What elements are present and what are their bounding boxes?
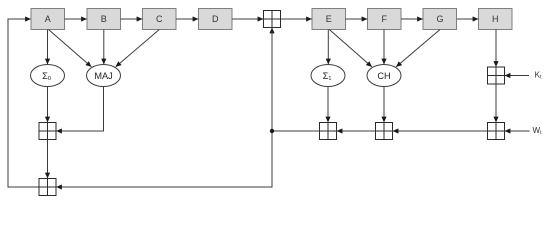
register G	[423, 9, 457, 30]
wire node T1 up to adder AD1	[271, 28, 273, 131]
wire Sigma0 to adder AD3	[47, 87, 49, 123]
wire A to B	[65, 18, 87, 20]
svg-text:MAJ: MAJ	[94, 71, 112, 81]
wire Sigma1 to adder AD4	[327, 87, 329, 123]
wire E to Sigma1	[327, 30, 329, 65]
svg-text:B: B	[101, 14, 107, 24]
adder AD7 (T1 + T2 = new A)	[39, 179, 56, 196]
svg-text:CH: CH	[377, 71, 390, 81]
wire E to CH (diagonal)	[329, 30, 372, 67]
adder AD1 (d + T1, feeds E)	[264, 11, 281, 28]
wire C to MAJ (diagonal)	[116, 30, 160, 67]
adder AD5 (CH + rest)	[376, 123, 393, 140]
wire node T1 down to adder AD7	[56, 131, 272, 187]
function Sigma0	[31, 65, 65, 87]
svg-text:D: D	[212, 14, 219, 24]
svg-text:F: F	[382, 14, 388, 24]
wire C to D	[176, 18, 198, 20]
wire G to H	[457, 18, 478, 20]
register C	[143, 9, 177, 30]
function Sigma1	[311, 65, 345, 87]
wire MAJ to adder AD3 (down then left)	[56, 87, 103, 132]
svg-text:E: E	[326, 14, 332, 24]
wire D to adder AD1	[232, 18, 263, 20]
svg-text:G: G	[436, 14, 443, 24]
wire Wt into adder AD6	[505, 130, 530, 132]
node T1 junction dot	[270, 129, 274, 133]
register A	[31, 9, 65, 30]
function CH	[367, 65, 401, 87]
wire E to F	[346, 18, 368, 20]
svg-text:A: A	[45, 14, 51, 24]
function MAJ	[87, 65, 121, 87]
wire Kt into adder AD2	[505, 75, 529, 77]
wire adder AD5 to adder AD4	[337, 130, 376, 132]
wire F to CH	[383, 30, 385, 65]
svg-text:C: C	[156, 14, 163, 24]
register D	[199, 9, 233, 30]
wire B to C	[121, 18, 143, 20]
register E	[312, 9, 346, 30]
svg-text:Kt: Kt	[535, 70, 542, 80]
wire adder AD1 to E	[281, 18, 312, 20]
wire H to adder AD2	[495, 30, 497, 67]
svg-text:Wt: Wt	[533, 126, 543, 136]
adder AD6 (+ Wt)	[488, 123, 505, 140]
wire adder AD6 to adder AD5	[393, 130, 488, 132]
adder AD2 (h + Kt)	[488, 67, 505, 84]
wire feedback new-A: bottom adder output left, up, into A	[8, 19, 39, 187]
register H	[479, 9, 513, 30]
wire B to MAJ	[103, 30, 105, 65]
register B	[87, 9, 121, 30]
wire adder AD2 to adder AD6	[495, 84, 497, 122]
adder AD3 (Sigma0 + MAJ = T2)	[39, 123, 56, 140]
register F	[368, 9, 402, 30]
wire CH to adder AD5	[383, 87, 385, 123]
wire adder AD3 to adder AD7	[47, 140, 49, 179]
wire adder AD4 to node T1	[272, 130, 320, 132]
adder AD4 (Sigma1 + rest)	[320, 123, 337, 140]
svg-text:H: H	[492, 14, 499, 24]
wire F to G	[401, 18, 423, 20]
wire A to MAJ (diagonal)	[49, 30, 92, 67]
wire A to Sigma0	[47, 30, 49, 65]
wire G to CH (diagonal)	[396, 30, 440, 67]
